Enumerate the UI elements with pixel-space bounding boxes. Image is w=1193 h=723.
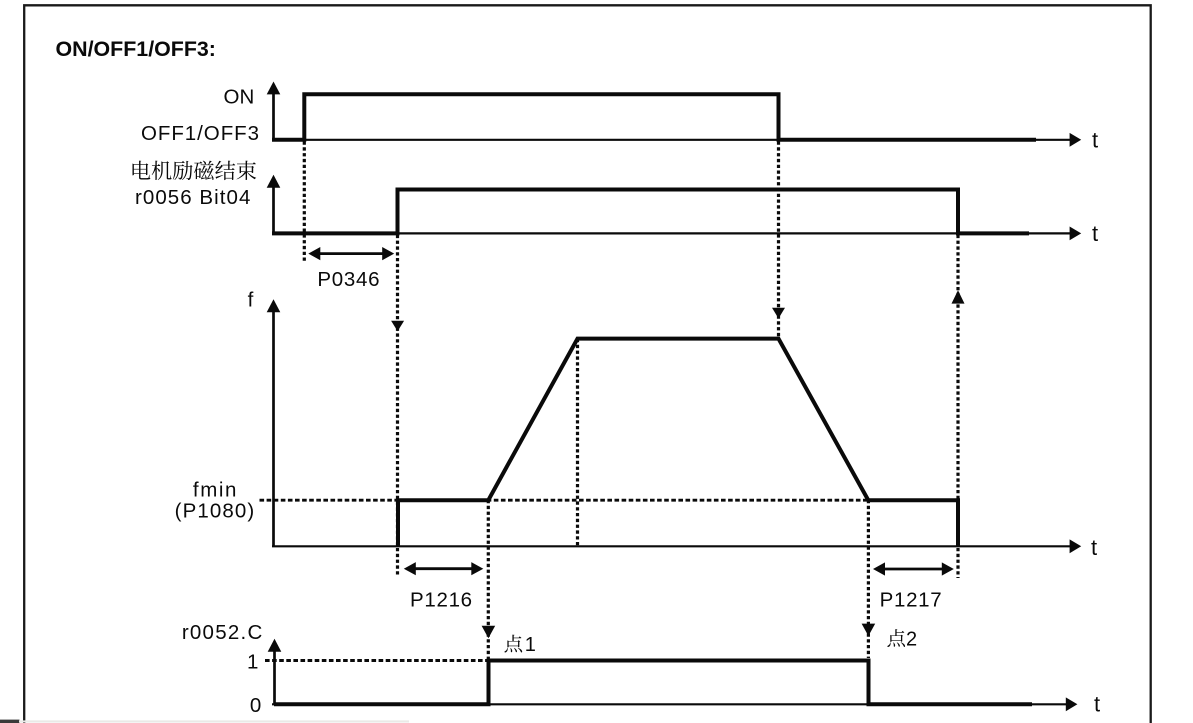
plot4 time axis (horizontal, arrow right) [272, 697, 1077, 711]
plot2 magnetizing-done signal waveform [272, 190, 1029, 234]
svg-text:ON/OFF1/OFF3:: ON/OFF1/OFF3: [56, 37, 216, 61]
svg-text:1: 1 [247, 650, 258, 673]
dotted line at magnetizing end (x=398) with down arrow [391, 235, 404, 575]
plot4 signal-level axis (vertical, arrow up) [268, 639, 282, 705]
label 点1 [504, 634, 535, 656]
dotted line at OFF command (x=778) with down arrow [772, 142, 785, 338]
svg-text:f: f [248, 289, 254, 312]
label 电机励磁结束 [132, 161, 256, 181]
svg-text:OFF1/OFF3: OFF1/OFF3 [141, 122, 260, 145]
svg-text:fmin: fmin [193, 479, 238, 502]
dotted level-1 reference line [265, 659, 488, 662]
plot3 frequency axis (vertical, arrow up) [267, 299, 281, 546]
plot4 r0052.C status signal waveform [274, 661, 1032, 705]
plot2 signal-level axis (vertical, arrow up) [267, 175, 281, 235]
svg-text:(P1080): (P1080) [175, 500, 256, 523]
svg-text:P0346: P0346 [317, 268, 380, 291]
svg-text:t: t [1092, 221, 1098, 246]
plot1 signal-level axis (vertical, arrow up) [267, 82, 281, 142]
svg-text:t: t [1091, 535, 1097, 560]
svg-text:r0056 Bit04: r0056 Bit04 [135, 186, 251, 209]
svg-text:t: t [1092, 128, 1098, 153]
svg-text:0: 0 [250, 694, 261, 717]
dotted line at ramp-down end (x=868) with down arrow to 点2 [862, 500, 876, 658]
svg-text:1: 1 [525, 634, 536, 656]
svg-text:P1216: P1216 [410, 589, 473, 612]
plot2 time axis (horizontal, arrow right) [272, 227, 1081, 241]
plot1 ON signal waveform [272, 94, 1036, 140]
dotted line at pulse disable (x=958) with up arrow [952, 235, 965, 578]
P0346 duration double arrow [308, 247, 394, 260]
svg-text:2: 2 [906, 629, 917, 651]
svg-text:r0052.C: r0052.C [182, 621, 264, 644]
P1216 duration double arrow [404, 562, 484, 575]
plot1 time axis (horizontal, arrow right) [272, 133, 1081, 147]
plot3 frequency ramp waveform (trapezoid) [398, 339, 958, 547]
plot3 time axis (horizontal, arrow right) [272, 539, 1081, 553]
dotted line at ramp top start (x=577) [576, 339, 579, 546]
dotted line at end of fmin hold (x=488) with down arrow to 点1 [482, 500, 496, 660]
label 点2 [887, 629, 917, 651]
fmin dashed level line [260, 499, 869, 502]
svg-text:P1217: P1217 [880, 589, 943, 612]
svg-text:ON: ON [224, 86, 255, 109]
P1217 duration double arrow [873, 562, 954, 575]
svg-text:t: t [1094, 692, 1100, 717]
dotted marker line at ON rising edge (x=304) [303, 142, 306, 263]
